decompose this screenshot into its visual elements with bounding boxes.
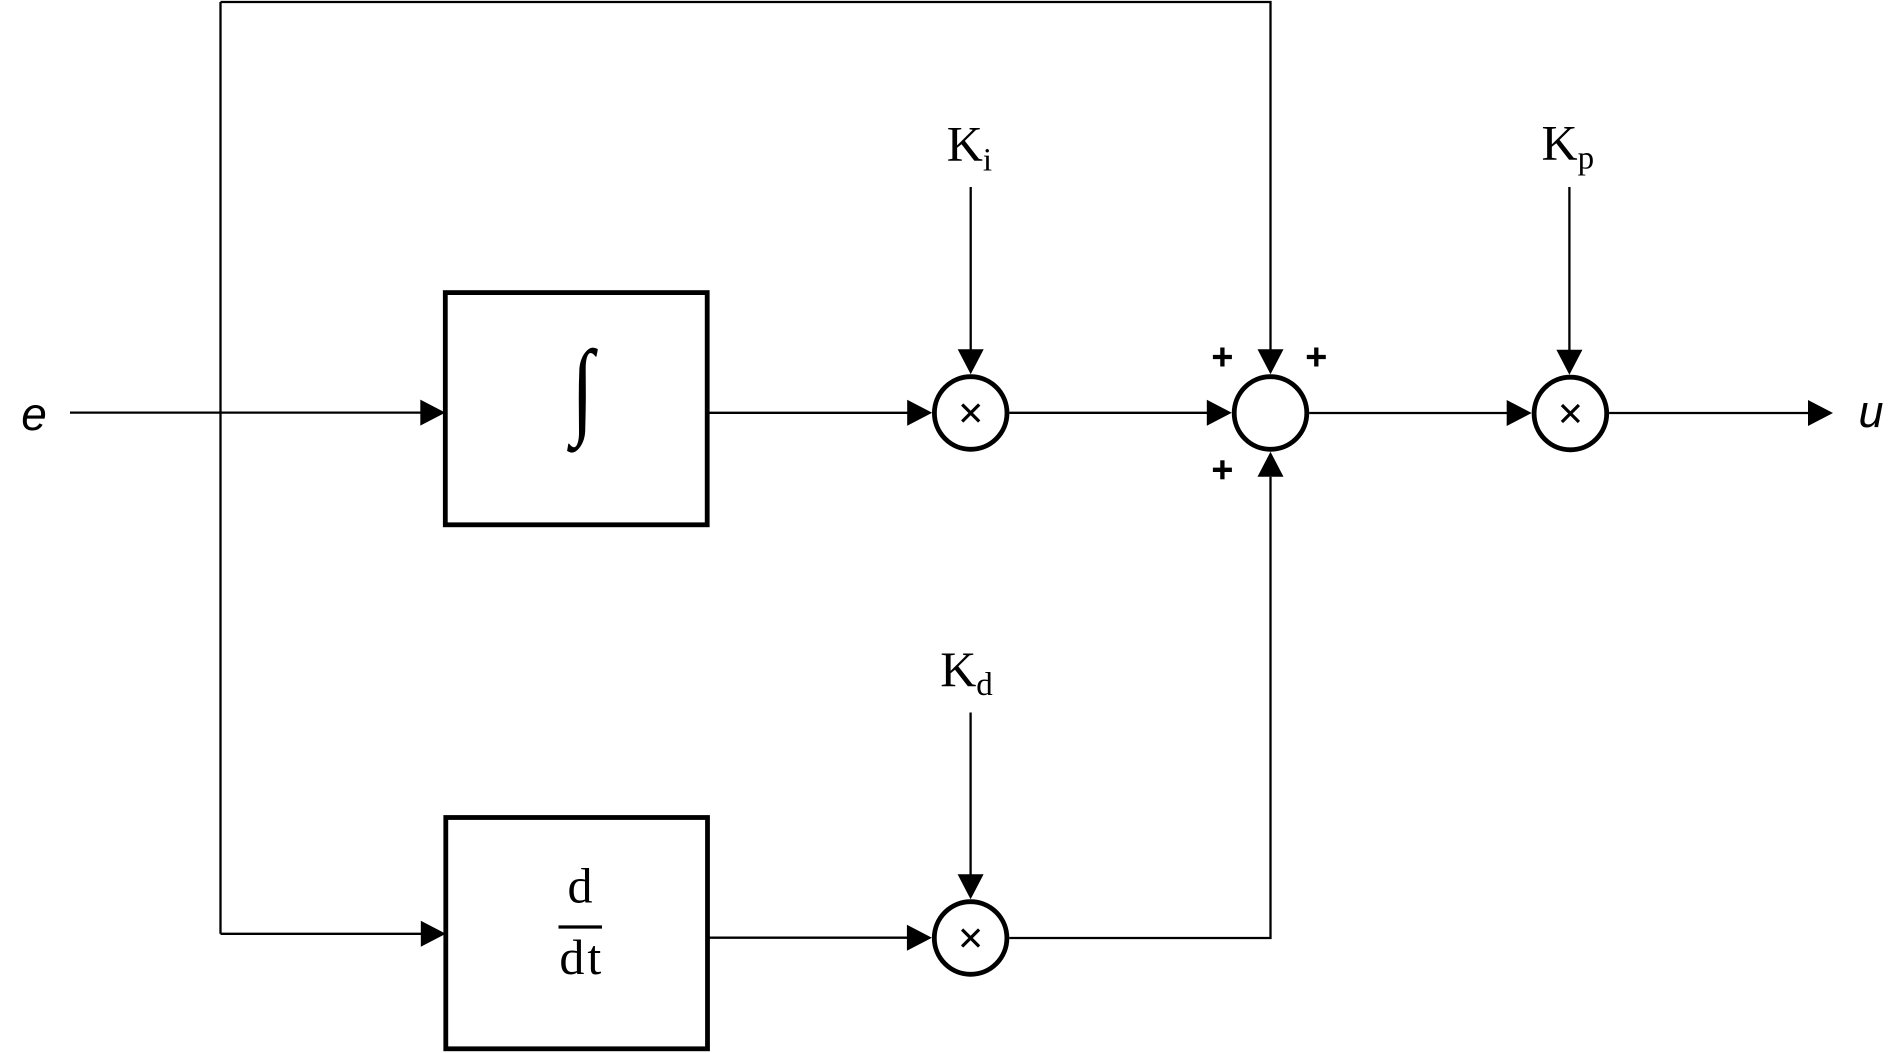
wire left trunk branch [219, 2, 221, 934]
label plus upper-right of summer [1307, 348, 1326, 367]
wire Kd to multiplier M3 [958, 713, 984, 900]
wire Ki to multiplier M1 [958, 187, 984, 374]
wire Kp to multiplier M2 [1556, 187, 1582, 375]
wire differentiator to multiplier M3 [708, 925, 932, 951]
multiplier M1 [934, 377, 1007, 450]
summer S1 [1234, 377, 1307, 450]
multiplier M2 [1534, 377, 1607, 450]
svg-text:e: e [21, 388, 47, 440]
wire integrator to multiplier M1 [707, 400, 932, 426]
svg-text:dt: dt [559, 929, 604, 985]
wire e input to integrator [70, 400, 445, 426]
label plus lower-left of summer [1213, 460, 1232, 479]
wire top feedback path from trunk to summer [221, 2, 1284, 374]
wire trunk to differentiator [221, 921, 446, 947]
wire multiplier M1 to summer [1009, 400, 1231, 426]
label plus upper-left of summer [1213, 348, 1232, 367]
wire multiplier M3 to summer [1009, 452, 1283, 938]
svg-text:d: d [568, 858, 593, 914]
differentiator block U2 [446, 818, 708, 1049]
wire summer to multiplier M2 [1309, 400, 1532, 426]
integrator block U1 [445, 293, 707, 525]
wire multiplier M2 to output [1609, 400, 1833, 426]
multiplier M3 [934, 902, 1007, 975]
svg-text:u: u [1858, 386, 1883, 437]
svg-text:∫: ∫ [567, 328, 598, 453]
